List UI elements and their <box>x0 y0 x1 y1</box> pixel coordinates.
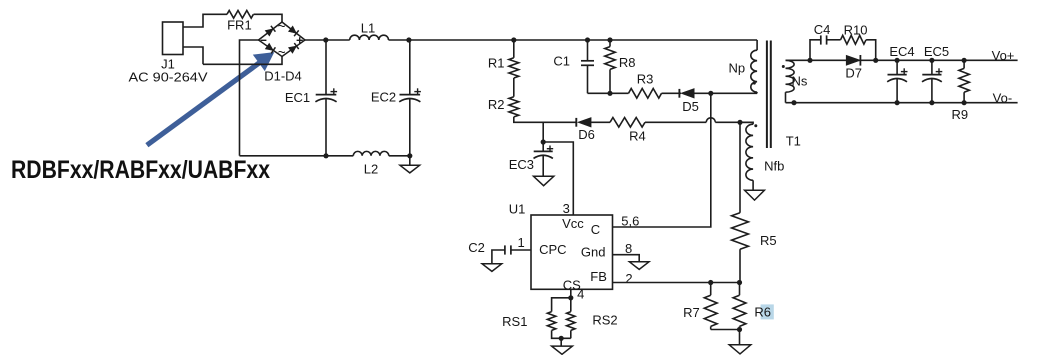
label R8 <box>619 55 636 70</box>
pin Vcc text <box>562 216 584 231</box>
node R1 top junction <box>511 37 516 42</box>
svg-text:~: ~ <box>278 19 286 34</box>
label R10 <box>844 23 868 38</box>
wire L2 to ground <box>389 156 410 166</box>
svg-text:4: 4 <box>577 286 584 301</box>
svg-text:R1: R1 <box>488 56 505 71</box>
label FR1 <box>227 17 252 32</box>
node EC2 top junction <box>406 37 411 42</box>
bridge + mark <box>297 37 303 43</box>
polarity dot Np <box>753 82 756 85</box>
label pin 8 <box>625 241 632 256</box>
winding Ns <box>786 60 795 102</box>
core T1 <box>767 41 771 149</box>
label U1 <box>509 202 526 217</box>
diode D7 <box>846 55 860 66</box>
wire R8 top <box>609 40 611 47</box>
node C1 top junction <box>585 37 590 42</box>
node bridge plus junction <box>323 37 328 42</box>
svg-text:RS1: RS1 <box>502 314 527 329</box>
node R5 top junction <box>737 120 742 125</box>
svg-text:EC3: EC3 <box>509 157 534 172</box>
node R9 bottom junction <box>962 100 967 105</box>
capacitor EC3 <box>534 151 553 176</box>
ground pin 8 <box>629 262 649 270</box>
svg-text:R3: R3 <box>637 71 654 86</box>
svg-text:C4: C4 <box>814 22 831 37</box>
op-amp U1 body <box>531 215 613 289</box>
label T1 <box>786 134 801 149</box>
ground below Nfb <box>745 190 765 200</box>
wire J1 top stub <box>183 14 227 27</box>
bridge - mark <box>261 39 267 41</box>
svg-text:D5: D5 <box>682 99 699 114</box>
wire FR1 to bridge top <box>254 14 283 22</box>
resistor R2 <box>509 97 519 117</box>
wire R9 top <box>963 60 965 68</box>
node EC4 top junction <box>895 58 900 63</box>
label R2 <box>488 97 505 112</box>
label EC4 <box>889 44 914 59</box>
label RDBFxx/RABFxx/UABFxx <box>11 156 270 184</box>
label pin 1 <box>517 235 524 250</box>
node D7 output junction <box>873 58 878 63</box>
label L1 <box>361 21 375 36</box>
label Nfb <box>764 159 784 174</box>
pin CPC text <box>539 242 566 257</box>
wire R3 to D5 <box>662 92 682 94</box>
node R9 top junction <box>962 58 967 63</box>
bridge diode top-right <box>289 26 299 36</box>
polarity dot Ns <box>782 65 785 68</box>
wire R2 bottom <box>514 117 576 122</box>
callout arrow <box>147 52 274 145</box>
wire RS ground stem <box>560 338 562 346</box>
svg-text:Nfb: Nfb <box>764 159 784 174</box>
svg-text:R8: R8 <box>619 55 636 70</box>
label D6 <box>578 127 595 142</box>
capacitor C1 <box>581 40 594 93</box>
wire CPC pin <box>511 249 531 251</box>
wire Vcc feed <box>543 142 573 215</box>
wire Vo- rail <box>786 102 1018 104</box>
svg-text:D6: D6 <box>578 127 595 142</box>
node R7 top junction <box>708 280 713 285</box>
svg-text:CPC: CPC <box>539 242 566 257</box>
resistor R7 <box>704 283 717 330</box>
label Vo- <box>993 91 1013 106</box>
label D7 <box>845 65 862 80</box>
node EC5 top junction <box>929 58 934 63</box>
svg-text:2: 2 <box>625 271 632 286</box>
pin CS text <box>563 278 581 293</box>
label pin 5,6 <box>621 213 639 228</box>
inductor L1 <box>350 35 389 40</box>
highlight R6 <box>761 304 774 319</box>
plus mark EC3 <box>547 146 553 152</box>
label D5 <box>682 99 699 114</box>
node RS bottom junction <box>559 336 564 341</box>
label D1-D4 <box>264 69 302 84</box>
svg-text:AC 90-264V: AC 90-264V <box>129 70 208 85</box>
ground below RS <box>552 346 573 354</box>
wire CS pin down <box>570 289 572 298</box>
svg-text:L1: L1 <box>361 21 375 36</box>
wire R6 ground stem <box>739 330 741 345</box>
ground below R6 <box>729 345 751 354</box>
label pin 4 <box>577 286 584 301</box>
polarity dot Nfb <box>754 124 757 127</box>
svg-text:3: 3 <box>563 201 570 216</box>
node EC1 bottom junction <box>323 153 328 158</box>
pin FB text <box>590 269 607 284</box>
svg-text:R6: R6 <box>754 304 771 319</box>
node Ns bottom junction <box>791 100 796 105</box>
svg-text:U1: U1 <box>509 202 526 217</box>
label R5 <box>760 233 777 248</box>
svg-text:R2: R2 <box>488 97 505 112</box>
label EC5 <box>924 44 949 59</box>
svg-text:Np: Np <box>728 61 745 76</box>
label Ns <box>792 74 808 89</box>
node EC2 bottom junction <box>407 153 412 158</box>
label J1 <box>161 57 175 72</box>
wire D6 to R4 <box>591 121 610 123</box>
bridge diode top-left <box>265 26 275 36</box>
label Np <box>728 61 745 76</box>
resistor R4 <box>610 118 645 128</box>
label EC1 <box>285 90 310 105</box>
capacitor EC5 <box>922 60 942 102</box>
wire Vo+ rail <box>786 59 1018 61</box>
label pin 3 <box>563 201 570 216</box>
resistor RS2 <box>567 298 575 339</box>
wire D5 to Np bottom <box>694 92 757 94</box>
svg-text:Gnd: Gnd <box>581 244 606 259</box>
label EC2 <box>371 90 396 105</box>
svg-text:FB: FB <box>590 269 607 284</box>
svg-text:C2: C2 <box>468 240 485 255</box>
label C4 <box>814 22 831 37</box>
svg-text:~: ~ <box>278 45 286 60</box>
resistor R10 <box>841 35 866 44</box>
wire bridge minus down-left <box>240 40 259 156</box>
label RS2 <box>592 313 617 328</box>
label Vo+ <box>992 48 1015 63</box>
label L2 <box>364 162 378 177</box>
wire top rail after L1 <box>389 39 758 41</box>
svg-text:EC4: EC4 <box>889 44 914 59</box>
wire R10 down <box>866 40 876 61</box>
wire bottom DC rail left <box>240 155 354 157</box>
label pin 2 <box>625 271 632 286</box>
svg-text:FR1: FR1 <box>227 17 252 32</box>
node C4 branch junction <box>807 58 812 63</box>
node CS junction <box>568 295 573 300</box>
diode D6 <box>576 118 591 128</box>
connector J1 <box>163 22 184 55</box>
svg-text:R7: R7 <box>683 305 700 320</box>
label C2 <box>468 240 485 255</box>
svg-text:5,6: 5,6 <box>621 213 639 228</box>
svg-text:Vo+: Vo+ <box>992 48 1015 63</box>
svg-text:8: 8 <box>625 241 632 256</box>
label R4 <box>629 129 646 144</box>
wire R9 bottom <box>963 92 965 103</box>
resistor R6 <box>733 283 746 330</box>
fuse FR1 <box>227 11 253 19</box>
label R7 <box>683 305 700 320</box>
node R6 top junction <box>737 280 742 285</box>
wire C2 to ground <box>492 250 505 264</box>
svg-text:Vcc: Vcc <box>562 216 584 231</box>
svg-text:C1: C1 <box>553 54 570 69</box>
label R3 <box>637 71 654 86</box>
wire Gnd pin <box>613 255 640 262</box>
diode D5 <box>679 89 694 99</box>
wire hop over vertical <box>706 118 715 123</box>
capacitor EC1 <box>315 40 337 156</box>
wire AC bottom to bridge <box>203 57 282 65</box>
svg-text:T1: T1 <box>786 134 801 149</box>
winding Np <box>751 40 757 93</box>
label AC 90-264V <box>129 70 208 85</box>
resistor R5 <box>732 122 749 282</box>
svg-text:R9: R9 <box>951 107 968 122</box>
node EC4 bottom junction <box>895 100 900 105</box>
wire hop to Nfb <box>715 121 753 123</box>
bridge ~ bottom mark <box>278 45 286 60</box>
capacitor C2 <box>505 245 511 254</box>
svg-text:R5: R5 <box>760 233 777 248</box>
wire to RS1 <box>552 298 571 312</box>
bridge diode bottom-right <box>289 43 299 53</box>
resistor R3 <box>629 89 662 99</box>
node R8 bottom junction <box>607 91 612 96</box>
node EC5 bottom junction <box>929 100 934 105</box>
capacitor EC4 <box>887 60 907 102</box>
label R1 <box>488 56 505 71</box>
label RS1 <box>502 314 527 329</box>
pin C text <box>591 222 600 237</box>
node EC3 junction <box>541 139 546 144</box>
wire R8 bottom <box>609 69 611 93</box>
svg-text:1: 1 <box>517 235 524 250</box>
svg-text:Ns: Ns <box>792 74 808 89</box>
svg-text:R4: R4 <box>629 129 646 144</box>
wire FB pin <box>613 282 740 284</box>
wire C4 branch up <box>810 40 821 61</box>
resistor R8 <box>605 47 615 70</box>
node R8 top junction <box>607 37 612 42</box>
wire R4 to hop <box>645 121 706 123</box>
ground below C2 <box>482 264 502 272</box>
wire C pin vertical <box>613 93 711 227</box>
wire EC3 stub <box>542 122 544 151</box>
svg-text:RDBFxx/RABFxx/UABFxx: RDBFxx/RABFxx/UABFxx <box>11 156 270 184</box>
svg-text:EC5: EC5 <box>924 44 949 59</box>
resistor R9 <box>959 68 969 92</box>
svg-text:C: C <box>591 222 600 237</box>
wire C1 bottom rail <box>588 92 629 94</box>
wire bridge plus to L1 <box>305 39 350 41</box>
svg-text:L2: L2 <box>364 162 378 177</box>
bridge diode bottom-left <box>265 43 275 53</box>
svg-text:EC1: EC1 <box>285 90 310 105</box>
ground below EC3 <box>534 176 554 185</box>
bridge ~ top mark <box>278 19 286 34</box>
svg-text:D7: D7 <box>845 65 862 80</box>
bridge rectifier D1-D4 body <box>259 22 306 57</box>
capacitor EC2 <box>399 40 421 156</box>
label EC3 <box>509 157 534 172</box>
wire R1 top <box>513 40 515 58</box>
svg-text:RS2: RS2 <box>592 313 617 328</box>
resistor RS1 <box>547 312 555 331</box>
wire J1 bottom stub <box>183 47 203 64</box>
node R6 bottom junction <box>737 327 742 332</box>
label R6 <box>754 304 771 319</box>
svg-text:R10: R10 <box>844 23 868 38</box>
winding Nfb <box>740 122 753 190</box>
label R9 <box>951 107 968 122</box>
svg-text:Vo-: Vo- <box>993 91 1013 106</box>
wire R1-R2 <box>513 78 515 97</box>
inductor L2 <box>353 151 389 155</box>
capacitor C4 <box>821 35 841 44</box>
ground after L2 <box>400 165 420 173</box>
pin Gnd text <box>581 244 606 259</box>
node D5 junction <box>708 91 713 96</box>
resistor R1 <box>509 58 519 78</box>
wire R7-R6 bottom <box>711 329 740 331</box>
svg-text:EC2: EC2 <box>371 90 396 105</box>
svg-text:D1-D4: D1-D4 <box>264 69 302 84</box>
wire RS1 bottom <box>552 330 571 338</box>
label C1 <box>553 54 570 69</box>
